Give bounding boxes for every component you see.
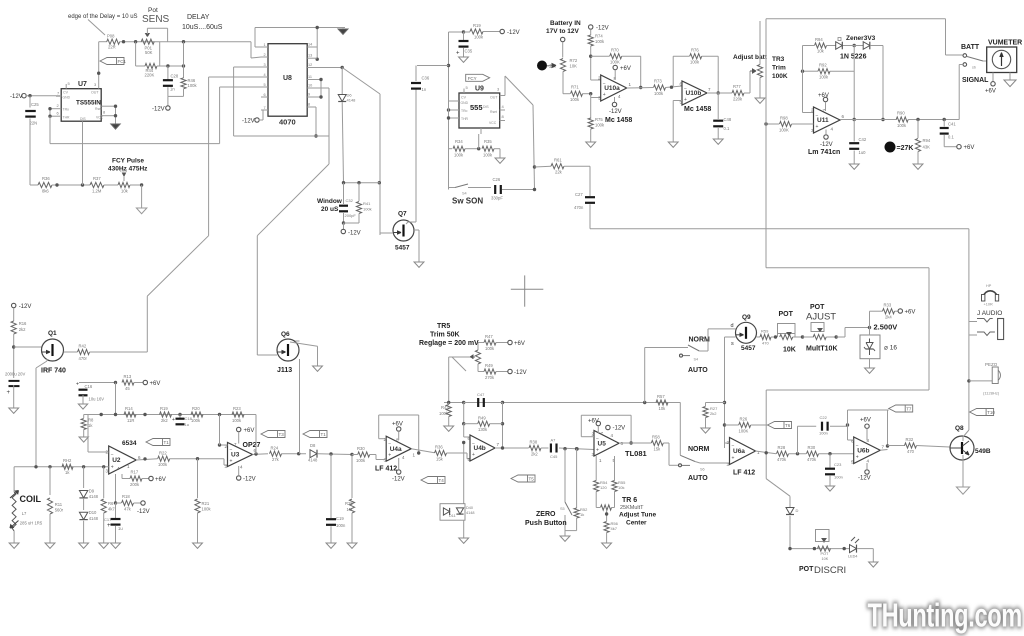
svg-text:8: 8 (103, 110, 106, 115)
svg-text:Q8: Q8 (955, 425, 964, 432)
svg-text:R47: R47 (485, 334, 493, 339)
svg-text:-12V: -12V (348, 231, 361, 237)
svg-text:-12V: -12V (10, 94, 23, 100)
svg-text:AUTO: AUTO (688, 475, 708, 482)
svg-text:+6V: +6V (150, 381, 161, 387)
svg-text:R49: R49 (478, 416, 486, 421)
svg-text:VCC: VCC (489, 121, 497, 125)
svg-text:100k: 100k (439, 411, 449, 416)
svg-text:100k: 100k (570, 97, 580, 102)
svg-text:Reglage = 200 mV: Reglage = 200 mV (419, 340, 479, 347)
svg-text:POT: POT (779, 311, 794, 318)
svg-text:+6V: +6V (514, 341, 525, 347)
svg-text:GND: GND (461, 101, 469, 105)
svg-text:470k: 470k (777, 457, 787, 462)
svg-text:R19: R19 (473, 23, 481, 28)
svg-text:C25: C25 (31, 102, 39, 107)
svg-text:−: − (856, 443, 859, 449)
svg-text:C36: C36 (422, 76, 430, 81)
svg-text:Q7: Q7 (398, 211, 407, 218)
svg-text:22N: 22N (30, 121, 38, 126)
svg-text:R23: R23 (233, 406, 241, 411)
svg-text:U10b: U10b (686, 90, 702, 97)
svg-text:d: d (731, 323, 734, 329)
svg-text:R58: R58 (652, 435, 660, 440)
svg-text:R18: R18 (122, 494, 130, 499)
svg-text:−: − (596, 436, 599, 442)
svg-text:+: + (856, 455, 859, 461)
svg-text:−: − (684, 86, 687, 92)
svg-text:+: + (684, 97, 687, 103)
svg-text:sb: sb (972, 66, 976, 70)
svg-text:Lm 741cn: Lm 741cn (808, 149, 840, 156)
svg-text:R42: R42 (79, 344, 87, 349)
svg-text:C45: C45 (550, 454, 558, 459)
svg-text:D11: D11 (449, 514, 456, 518)
svg-text:100k: 100k (483, 153, 493, 158)
svg-text:+6V: +6V (155, 477, 166, 483)
svg-text:BATT: BATT (961, 44, 980, 51)
svg-text:5457: 5457 (395, 245, 410, 252)
svg-text:560r: 560r (55, 508, 64, 513)
svg-text:C27: C27 (575, 192, 583, 197)
svg-text:U7: U7 (78, 81, 87, 88)
svg-text:4k7: 4k7 (611, 526, 618, 531)
svg-text:R19: R19 (160, 406, 168, 411)
svg-text:7: 7 (57, 91, 60, 96)
svg-text:U11: U11 (817, 117, 829, 124)
svg-text:D10: D10 (89, 510, 97, 515)
svg-text:22R: 22R (108, 45, 116, 50)
svg-text:549B: 549B (975, 448, 991, 455)
svg-text:100k: 100k (158, 462, 168, 467)
svg-text:CV: CV (63, 91, 69, 95)
svg-text:T4: T4 (439, 478, 445, 483)
svg-text:L7: L7 (22, 511, 27, 516)
svg-text:THR: THR (461, 117, 469, 121)
svg-text:15k: 15k (436, 457, 444, 462)
svg-text:R36: R36 (435, 445, 443, 450)
svg-text:285 uH 1R5: 285 uH 1R5 (20, 521, 43, 526)
svg-text:Mc 1458: Mc 1458 (605, 117, 632, 124)
svg-text:+6V: +6V (964, 145, 975, 151)
svg-text:VUMETER: VUMETER (988, 40, 1022, 47)
svg-text:100k: 100k (485, 346, 495, 351)
svg-text:R26: R26 (740, 417, 748, 422)
svg-text:R34: R34 (455, 139, 463, 144)
svg-text:+6V: +6V (620, 66, 631, 72)
svg-text:220k: 220k (733, 97, 743, 102)
svg-text:R14: R14 (125, 406, 133, 411)
svg-text:R36: R36 (42, 176, 50, 181)
svg-text:TR 6: TR 6 (622, 497, 637, 504)
svg-text:D9: D9 (89, 489, 95, 494)
svg-text:S6: S6 (700, 468, 705, 472)
svg-text:R22: R22 (159, 451, 167, 456)
svg-text:R8: R8 (88, 418, 94, 423)
svg-text:R49: R49 (485, 363, 493, 368)
svg-text:−: − (388, 442, 391, 448)
svg-text:10k: 10k (659, 406, 667, 411)
svg-text:200pF: 200pF (345, 213, 357, 218)
svg-text:100K: 100K (779, 128, 789, 133)
svg-text:12: 12 (308, 63, 312, 67)
svg-text:220K: 220K (145, 73, 155, 78)
svg-text:270k: 270k (485, 375, 495, 380)
svg-text:R28: R28 (778, 445, 786, 450)
svg-text:POT: POT (810, 304, 825, 311)
svg-text:100k: 100k (363, 207, 372, 212)
svg-text:THR: THR (63, 116, 71, 120)
svg-text:+6V: +6V (985, 89, 996, 95)
svg-text:s: s (731, 341, 734, 347)
svg-text:DISCRI: DISCRI (814, 565, 846, 576)
svg-text:R72: R72 (570, 58, 578, 63)
svg-text:100K: 100K (739, 429, 749, 434)
svg-text:1n: 1n (170, 87, 175, 92)
svg-text:R94: R94 (815, 37, 823, 42)
svg-text:FC1: FC1 (118, 59, 127, 64)
svg-text:3: 3 (497, 87, 500, 92)
svg-text:R13: R13 (124, 374, 132, 379)
svg-text:NORM: NORM (689, 337, 711, 344)
svg-text:0.1: 0.1 (724, 126, 730, 131)
svg-text:100k: 100k (595, 123, 605, 128)
svg-text:+: + (596, 447, 599, 453)
svg-text:R71: R71 (571, 85, 579, 90)
svg-text:2k2: 2k2 (161, 418, 168, 423)
svg-text:8: 8 (308, 103, 310, 107)
svg-text:R75: R75 (595, 117, 603, 122)
svg-text:SENS: SENS (142, 14, 170, 25)
svg-text:U8: U8 (283, 75, 292, 82)
svg-text:PEZO: PEZO (985, 362, 998, 367)
svg-text:Q6: Q6 (281, 331, 290, 338)
svg-text:4148: 4148 (89, 516, 99, 521)
svg-text:+10R: +10R (984, 303, 993, 307)
svg-text:OUT: OUT (91, 91, 99, 95)
svg-text:R21: R21 (202, 501, 210, 506)
svg-text:5: 5 (264, 83, 266, 87)
svg-text:4: 4 (618, 94, 621, 99)
svg-text:100k: 100k (191, 418, 201, 423)
svg-text:Trim 50K: Trim 50K (430, 332, 460, 339)
svg-text:R17: R17 (131, 470, 139, 475)
svg-text:4: 4 (611, 433, 614, 438)
svg-text:10K: 10K (783, 347, 796, 354)
svg-text:2000u 20V: 2000u 20V (5, 372, 25, 377)
svg-text:120: 120 (600, 485, 607, 490)
svg-text:OUT: OUT (490, 96, 498, 100)
svg-text:2k4: 2k4 (885, 315, 892, 320)
svg-text:+: + (76, 382, 79, 388)
svg-text:U6b: U6b (857, 447, 869, 454)
svg-text:1: 1 (599, 458, 602, 463)
svg-text:4: 4 (867, 459, 870, 464)
svg-text:D40: D40 (466, 506, 473, 510)
svg-text:-12V: -12V (820, 142, 833, 148)
svg-text:U6a: U6a (733, 448, 745, 455)
svg-text:T1: T1 (321, 432, 327, 437)
svg-text:R32: R32 (906, 437, 914, 442)
svg-text:TR3: TR3 (772, 56, 785, 63)
svg-text:R41: R41 (363, 201, 371, 206)
svg-text:AJUST: AJUST (806, 312, 836, 323)
svg-text:C41: C41 (948, 122, 956, 127)
svg-text:-12V: -12V (613, 426, 626, 432)
svg-text:J AUDIO: J AUDIO (977, 310, 1002, 317)
svg-text:Trim: Trim (772, 65, 786, 72)
svg-text:430Hz 475Hz: 430Hz 475Hz (108, 166, 148, 173)
svg-text:1u: 1u (118, 526, 123, 531)
svg-text:P08: P08 (107, 34, 115, 39)
svg-text:AUTO: AUTO (688, 367, 708, 374)
svg-text:11R: 11R (127, 418, 134, 423)
svg-text:RH2: RH2 (63, 458, 72, 463)
svg-text:1: 1 (413, 453, 416, 458)
svg-text:470r: 470r (79, 356, 88, 361)
svg-text:2k2: 2k2 (19, 327, 26, 332)
svg-text:T3: T3 (279, 432, 285, 437)
svg-text:-12V: -12V (596, 26, 609, 32)
svg-text:+6V: +6V (905, 310, 916, 316)
svg-text:LF 412: LF 412 (375, 466, 397, 473)
svg-text:+: + (7, 390, 11, 396)
svg-text:-12V: -12V (609, 109, 622, 115)
svg-text:14: 14 (308, 43, 312, 47)
svg-text:+: + (111, 465, 114, 471)
svg-text:ZERO: ZERO (536, 511, 556, 518)
svg-text:4: 4 (240, 465, 243, 470)
svg-text:C18: C18 (185, 416, 193, 421)
svg-text:100k: 100k (897, 123, 907, 128)
svg-text:C26: C26 (493, 177, 501, 182)
svg-text:Zener3V3: Zener3V3 (846, 35, 876, 42)
svg-text:R24: R24 (271, 446, 279, 451)
svg-text:R90: R90 (897, 111, 905, 116)
svg-text:Adjust batt: Adjust batt (733, 54, 768, 61)
svg-text:U4a: U4a (390, 446, 402, 453)
svg-text:555: 555 (470, 103, 483, 112)
svg-text:HP: HP (986, 284, 992, 288)
svg-text:17V to 12V: 17V to 12V (546, 28, 580, 35)
svg-text:TL081: TL081 (625, 449, 647, 458)
svg-text:+: + (456, 51, 460, 57)
svg-text:10: 10 (308, 84, 312, 88)
svg-text:1,2M: 1,2M (92, 189, 102, 194)
svg-text:S6: S6 (697, 470, 698, 471)
svg-text:11: 11 (308, 75, 312, 79)
svg-text:C42: C42 (859, 137, 867, 142)
svg-text:Center: Center (626, 520, 647, 527)
svg-text:45: 45 (125, 386, 130, 391)
svg-text:100k: 100k (690, 60, 700, 65)
svg-text:D: D (796, 508, 799, 513)
svg-text:+6V: +6V (244, 428, 255, 434)
svg-text:100K: 100K (772, 73, 788, 80)
svg-text:+: + (230, 458, 233, 464)
svg-text:S4: S4 (462, 192, 467, 196)
svg-text:edge of the Delay = 10 uS: edge of the Delay = 10 uS (68, 14, 138, 20)
svg-text:Mc 1458: Mc 1458 (684, 106, 711, 113)
svg-text:4: 4 (402, 455, 405, 460)
svg-text:470: 470 (907, 449, 915, 454)
svg-text:200k: 200k (130, 482, 140, 487)
svg-text:1: 1 (264, 43, 266, 47)
svg-text:-12V: -12V (392, 477, 405, 483)
svg-text:130k: 130k (478, 427, 488, 432)
svg-text:6: 6 (264, 93, 266, 97)
svg-text:Adjust Tune: Adjust Tune (619, 512, 656, 519)
svg-text:+: + (388, 453, 391, 459)
svg-text:6: 6 (842, 114, 845, 119)
svg-text:R33: R33 (884, 303, 892, 308)
svg-text:U9: U9 (475, 86, 484, 93)
svg-text:1: 1 (127, 464, 130, 469)
svg-text:Rset: Rset (95, 107, 102, 111)
svg-text:GND: GND (63, 96, 71, 100)
svg-text:-12V: -12V (137, 509, 150, 515)
svg-text:43K: 43K (923, 145, 931, 150)
svg-text:5: 5 (68, 81, 71, 86)
svg-text:THunting.com: THunting.com (868, 598, 1022, 635)
svg-text:3: 3 (94, 82, 97, 87)
svg-text:R37: R37 (93, 176, 101, 181)
svg-text:1k: 1k (65, 470, 70, 475)
svg-text:Window: Window (317, 198, 343, 205)
svg-text:−: − (230, 448, 233, 454)
svg-text:8k6: 8k6 (42, 189, 49, 194)
svg-text:R74: R74 (595, 34, 603, 39)
svg-text:-12V: -12V (242, 119, 255, 125)
svg-text:NORM: NORM (688, 446, 710, 453)
svg-text:R35: R35 (484, 139, 492, 144)
svg-text:+: + (472, 452, 475, 458)
svg-text:5: 5 (466, 85, 469, 90)
svg-text:DELAY: DELAY (187, 14, 210, 21)
svg-text:100n: 100n (819, 431, 828, 436)
svg-text:100k: 100k (654, 91, 664, 96)
svg-text:4: 4 (831, 127, 834, 132)
svg-text:4148: 4148 (466, 511, 474, 515)
svg-text:4070: 4070 (279, 118, 296, 127)
svg-text:20 uS: 20 uS (321, 206, 339, 213)
svg-text:R59: R59 (761, 329, 769, 334)
svg-text:-12V: -12V (514, 370, 527, 376)
svg-text:FCY Pulse: FCY Pulse (112, 158, 144, 165)
svg-text:-12V: -12V (19, 304, 32, 310)
svg-text:T10: T10 (987, 410, 995, 415)
svg-text:15k: 15k (654, 447, 662, 452)
svg-text:100k: 100k (202, 507, 212, 512)
svg-text:LED4: LED4 (848, 555, 858, 559)
svg-text:−: − (732, 444, 735, 450)
svg-text:+6V: +6V (860, 418, 871, 424)
svg-text:POT: POT (799, 566, 814, 573)
svg-text:1: 1 (757, 450, 760, 455)
svg-text:C47: C47 (477, 392, 485, 397)
svg-text:2: 2 (264, 53, 266, 57)
svg-text:27k: 27k (272, 457, 280, 462)
svg-text:TR4: TR4 (119, 168, 128, 173)
svg-text:R20: R20 (192, 406, 200, 411)
svg-text:LF 412: LF 412 (733, 470, 755, 477)
svg-text:T5: T5 (529, 477, 535, 482)
svg-text:100n: 100n (336, 523, 346, 528)
svg-text:T6: T6 (785, 423, 791, 428)
svg-text:S5: S5 (560, 507, 565, 511)
svg-text:1u0: 1u0 (859, 150, 867, 155)
svg-text:C28: C28 (171, 74, 179, 79)
svg-text:100K: 100K (610, 60, 620, 65)
svg-text:C23: C23 (834, 462, 842, 467)
svg-text:−: − (472, 441, 475, 447)
svg-text:2k2: 2k2 (531, 452, 538, 457)
svg-text:C17: C17 (104, 517, 112, 522)
svg-text:T1: T1 (164, 440, 170, 445)
svg-text:+: + (603, 92, 606, 98)
svg-text:IRF 740: IRF 740 (41, 368, 66, 375)
svg-text:100k: 100k (595, 39, 605, 44)
svg-text:DIS: DIS (80, 117, 86, 121)
svg-text:10uS....60uS: 10uS....60uS (182, 24, 223, 31)
svg-text:R70: R70 (611, 48, 619, 53)
svg-text:J113: J113 (277, 367, 292, 374)
svg-text:4: 4 (264, 73, 266, 77)
svg-text:U10a: U10a (604, 85, 620, 92)
svg-text:C16: C16 (85, 384, 93, 389)
svg-text:4148: 4148 (89, 494, 99, 499)
svg-text:R11: R11 (55, 502, 63, 507)
svg-text:FCY: FCY (468, 76, 477, 81)
svg-text:+6V: +6V (392, 422, 403, 428)
svg-text:22k: 22k (555, 170, 563, 175)
svg-text:C48: C48 (724, 117, 732, 122)
svg-text:9: 9 (308, 93, 310, 97)
svg-text:R30: R30 (357, 446, 365, 451)
svg-text:R94: R94 (923, 138, 931, 143)
svg-text:R25: R25 (345, 501, 353, 506)
svg-text:10K: 10K (822, 557, 829, 561)
svg-text:6534: 6534 (122, 440, 137, 447)
svg-text:50K: 50K (145, 50, 153, 55)
svg-text:CV: CV (461, 96, 467, 100)
svg-text:R76: R76 (691, 48, 699, 53)
svg-text:T7: T7 (906, 407, 912, 412)
svg-text:10k: 10k (121, 189, 129, 194)
svg-text:−: − (603, 81, 606, 87)
svg-text:C35: C35 (465, 49, 473, 54)
svg-text:TR5: TR5 (437, 323, 450, 330)
svg-text:+6V: +6V (818, 93, 829, 99)
svg-text:25KMultT: 25KMultT (620, 505, 644, 511)
svg-text:C22: C22 (820, 415, 828, 420)
svg-text:470n: 470n (574, 205, 584, 210)
svg-text:+: + (816, 124, 819, 130)
svg-text:13: 13 (308, 54, 312, 58)
svg-text:R61: R61 (554, 158, 562, 163)
svg-text:COIL: COIL (20, 494, 42, 504)
svg-text:7: 7 (497, 442, 500, 447)
svg-text:4k7: 4k7 (108, 507, 115, 512)
svg-text:R38: R38 (530, 440, 538, 445)
svg-text:MultT10K: MultT10K (806, 346, 838, 353)
svg-text:=27K: =27K (897, 145, 914, 152)
svg-text:3: 3 (106, 469, 109, 474)
svg-text:7: 7 (708, 87, 711, 92)
svg-text:SIGNAL: SIGNAL (962, 77, 989, 84)
svg-text:100k: 100k (474, 35, 484, 40)
